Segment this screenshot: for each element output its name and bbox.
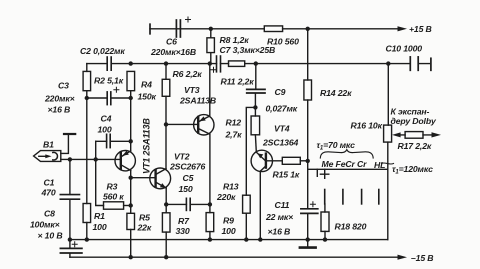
- svg-text:R5: R5: [139, 213, 150, 223]
- svg-text:2SC1364: 2SC1364: [262, 138, 298, 148]
- svg-text:22к: 22к: [137, 223, 152, 233]
- svg-text:R4: R4: [141, 80, 152, 90]
- VT1 emitter with arrow (PNP, up): [122, 151, 131, 157]
- wire R5 chain to bottom bus: [130, 206, 132, 258]
- wire long left line down to R1: [86, 98, 88, 204]
- node R3/R5: [129, 203, 133, 207]
- wire R15 to node: [300, 160, 307, 162]
- svg-text:В1: В1: [43, 140, 54, 150]
- HL tau callout stroke: [382, 163, 394, 164]
- wire signal ground rail: [70, 239, 388, 241]
- ground symbol: [307, 240, 309, 247]
- svg-text:22 мк×: 22 мк×: [265, 212, 293, 222]
- capacitor C5: [186, 198, 190, 210]
- svg-text:150: 150: [179, 184, 193, 194]
- svg-text:150к: 150к: [138, 92, 157, 102]
- svg-text:R10 560: R10 560: [267, 37, 299, 47]
- capacitor C1: [60, 195, 79, 200]
- wire R2 bottom to C3 node: [86, 91, 88, 98]
- svg-text:220мк×: 220мк×: [44, 94, 75, 104]
- node C11 rail: [306, 237, 310, 241]
- VT3 base bar: [197, 117, 199, 133]
- node at R8 top: [209, 27, 213, 31]
- B1 arrow inside: [39, 155, 47, 157]
- svg-text:2,7к: 2,7к: [225, 130, 243, 140]
- svg-text:R17 2,2к: R17 2,2к: [398, 141, 432, 151]
- svg-text:R13: R13: [223, 182, 239, 192]
- VT3 collector: [199, 129, 210, 134]
- capacitor C9: [247, 89, 265, 93]
- svg-text:+15 В: +15 В: [409, 24, 432, 34]
- VT2 emitter with arrow (NPN, down): [156, 182, 166, 188]
- terminal C10 right open end: [430, 58, 432, 70]
- capacitor C2: [107, 57, 111, 70]
- svg-text:470: 470: [41, 188, 56, 198]
- resistor R8: [207, 29, 215, 64]
- node C3 right / R4 bottom: [129, 96, 133, 100]
- C3 plus sign: [114, 87, 119, 92]
- capacitor C3 (electrolytic): [107, 92, 111, 105]
- svg-text:100: 100: [98, 125, 112, 135]
- T-bar: [64, 133, 75, 135]
- svg-text:560 к: 560 к: [103, 192, 124, 202]
- svg-text:Me FeCr Cr: Me FeCr Cr: [322, 159, 368, 169]
- wire R1 to rail: [86, 223, 88, 240]
- wire R2 branch from corner down: [86, 64, 88, 72]
- terminal top-left open end: [149, 24, 151, 34]
- node R6 top: [164, 61, 168, 65]
- VT2 base bar: [154, 170, 156, 186]
- svg-text:C9: C9: [275, 87, 286, 97]
- switch contact Cr: [361, 190, 363, 204]
- svg-text:R2 5,1к: R2 5,1к: [94, 76, 124, 86]
- svg-text:C6: C6: [166, 37, 177, 47]
- svg-text:× 10 В: × 10 В: [38, 231, 63, 241]
- node VT3 base tap: [164, 122, 168, 126]
- transistor VT2 circle: [150, 168, 171, 189]
- wire C8 stem: [69, 240, 71, 258]
- transistor VT1 circle: [115, 151, 135, 171]
- svg-text:2SC2676: 2SC2676: [169, 162, 205, 172]
- wire R12 to VT4 base: [254, 135, 257, 152]
- transistor VT3 circle: [194, 115, 214, 135]
- switch wiper stub with crossbar: [320, 169, 328, 178]
- svg-text:R9: R9: [223, 216, 234, 226]
- capacitor C7: [217, 56, 221, 72]
- C8 plus sign: [72, 242, 77, 247]
- VT4 emitter diagonal with arrow: [256, 152, 265, 160]
- wire R16 bottom / box right edge: [387, 142, 389, 240]
- resistor R17: [405, 132, 423, 139]
- svg-text:220мк×16В: 220мк×16В: [150, 47, 196, 57]
- svg-text:100мк×: 100мк×: [30, 220, 60, 230]
- node R2/C3 left: [85, 96, 89, 100]
- svg-text:VT2: VT2: [174, 152, 190, 162]
- node R10 right / +15V branch: [306, 27, 310, 31]
- B1 top terminal stem to T-bar: [61, 135, 69, 153]
- resistor R4: [127, 71, 135, 90]
- resistor R12: [251, 116, 260, 135]
- svg-text:деру Dolby: деру Dolby: [391, 116, 437, 126]
- wire C4 row: [96, 140, 131, 142]
- B1 gap hook: [53, 152, 58, 160]
- VT4 base bar: [265, 154, 267, 168]
- VT1 collector: [121, 165, 131, 171]
- wire R6 line: node to R6 to VT2 collector: [165, 64, 167, 169]
- wire contact Me to R18: [324, 204, 326, 212]
- svg-text:330: 330: [176, 226, 190, 236]
- node R1 rail: [85, 237, 89, 241]
- svg-text:R16 10к: R16 10к: [351, 121, 383, 131]
- +15V arrowhead: [398, 26, 408, 31]
- switch contact Me: [324, 190, 326, 204]
- node C9 top: [254, 61, 258, 65]
- wire R16 line from C10 node down: [387, 64, 389, 126]
- svg-text:100: 100: [93, 222, 107, 232]
- wire main mid bus y=63.6: [87, 63, 430, 65]
- wire R12 top lead: [254, 107, 256, 116]
- svg-text:τ1=120мкс: τ1=120мкс: [392, 164, 433, 176]
- svg-text:VT4: VT4: [274, 124, 290, 134]
- wire VT3 emitter up to node: [209, 64, 211, 117]
- resistor R15: [282, 157, 300, 164]
- VT4 lead to R15: [267, 160, 283, 162]
- wire top supply run from terminal to R10: [150, 28, 399, 30]
- C6 plus sign: [186, 17, 191, 22]
- svg-text:С11: С11: [275, 200, 290, 210]
- svg-text:С3: С3: [58, 81, 69, 91]
- svg-text:R1: R1: [94, 211, 105, 221]
- wire input run B1 to VT1 base: [61, 158, 121, 160]
- resistor R18: [321, 212, 329, 231]
- node C5/R9: [208, 202, 212, 206]
- svg-text:R14 22к: R14 22к: [320, 88, 352, 98]
- resistor R10: [264, 26, 282, 32]
- svg-text:–15 В: –15 В: [411, 253, 433, 263]
- capacitor C6: [176, 20, 180, 37]
- svg-text:R12: R12: [226, 118, 242, 128]
- wire C9 stem: [254, 64, 256, 108]
- wire R7 chain to bottom bus: [165, 204, 167, 257]
- wire C1 stem lower: [69, 199, 71, 239]
- svg-text:HL: HL: [374, 160, 385, 170]
- svg-text:×16 В: ×16 В: [48, 105, 71, 115]
- svg-text:100: 100: [222, 226, 236, 236]
- node R15/R14/C11 junction: [306, 159, 310, 163]
- resistor R14: [304, 80, 312, 100]
- C11 plus sign: [310, 202, 315, 207]
- node R13 rail: [244, 237, 248, 241]
- wire VT3 base: [166, 123, 198, 125]
- wire R4 bottom to C4 row to VT1 emitter: [130, 91, 132, 151]
- node VT4 lower lead rail: [258, 237, 262, 241]
- svg-text:C2 0,022мк: C2 0,022мк: [80, 46, 125, 56]
- resistor R3: [104, 202, 124, 209]
- node R3/C4 branch tap: [94, 157, 98, 161]
- capacitor C11: [301, 209, 318, 214]
- svg-text:К экспан-: К экспан-: [391, 107, 430, 117]
- node R16/C10: [386, 61, 390, 65]
- wire C1 stem upper: [69, 159, 71, 194]
- -15V arrowhead: [398, 255, 408, 260]
- node R5 bottom bus: [129, 255, 133, 259]
- wire R17 branch: [399, 134, 433, 136]
- node R9 rail: [208, 237, 212, 241]
- wire R3 branch down from input: [96, 159, 104, 205]
- resistor R13: [243, 195, 251, 213]
- node C2/R4 top: [129, 61, 133, 65]
- node C1 tap: [68, 157, 72, 161]
- wire VT2 base: [131, 177, 156, 179]
- VT2 collector (up): [156, 169, 166, 175]
- wire R13 branch: [246, 107, 255, 239]
- switch contact FeCr: [342, 190, 344, 204]
- svg-text:×16 В: ×16 В: [268, 227, 291, 237]
- capacitor C8: [60, 248, 82, 253]
- C7 plus sign: [211, 67, 216, 72]
- wire R9 chain: [209, 204, 211, 239]
- wire R14 to R15 node: [307, 100, 309, 161]
- node C9/R12/R13: [253, 105, 257, 109]
- svg-text:C4: C4: [101, 114, 112, 124]
- transistor VT4 circle: [251, 150, 272, 171]
- VT4 collector down: [260, 166, 265, 239]
- wire R18 to rail: [324, 231, 326, 239]
- svg-text:0,027мк: 0,027мк: [266, 104, 298, 114]
- capacitor C10: [410, 57, 418, 70]
- node C4 right: [129, 139, 133, 143]
- svg-text:R11 2,2к: R11 2,2к: [221, 77, 255, 87]
- svg-text:C10 1000: C10 1000: [386, 44, 423, 54]
- svg-text:VT3: VT3: [184, 85, 200, 95]
- capacitor C4: [107, 134, 111, 147]
- svg-text:R6 2,2к: R6 2,2к: [173, 69, 203, 79]
- svg-text:С8: С8: [44, 209, 55, 219]
- resistor R1: [83, 204, 91, 223]
- svg-text:VT1 2SA113В: VT1 2SA113В: [142, 118, 152, 174]
- wire node down to C11: [307, 161, 309, 209]
- wire bottom -15V bus: [70, 256, 399, 258]
- svg-text:2SA113В: 2SA113В: [179, 96, 216, 106]
- node VT2 base tap: [129, 176, 133, 180]
- node R8/VT3 emitter: [208, 61, 212, 65]
- svg-text:R8 1,2к: R8 1,2к: [220, 35, 250, 45]
- wire C4 left corner down to input node: [95, 141, 97, 159]
- head B1 body: [34, 151, 61, 162]
- resistor R9: [206, 213, 214, 232]
- brace for tau 70us: [320, 150, 373, 158]
- svg-text:R15 1к: R15 1к: [273, 170, 300, 180]
- switch box left edge stub: [316, 169, 318, 176]
- wire VT1 collector down / VT2 base node: [130, 170, 132, 205]
- node R7 bottom bus: [164, 255, 168, 259]
- wire C11 to rail: [307, 213, 309, 239]
- svg-text:220к: 220к: [216, 192, 236, 202]
- node C1/C8 rail: [68, 237, 72, 241]
- resistor R5: [127, 213, 135, 229]
- wire VT3 collector down to C5 node: [209, 134, 211, 205]
- R17 output arrowhead: [432, 132, 442, 137]
- wire +15V line down through R14: [307, 29, 309, 80]
- svg-text:C5: C5: [183, 173, 194, 183]
- svg-text:R3: R3: [107, 182, 118, 192]
- resistor R6: [162, 79, 170, 96]
- switch contact HL: [378, 190, 380, 204]
- wire C3 row: [87, 97, 131, 99]
- svg-text:R18 820: R18 820: [335, 222, 367, 232]
- svg-text:С1: С1: [44, 178, 55, 188]
- resistor R16: [384, 125, 392, 142]
- resistor R7: [162, 213, 170, 232]
- VT1 base bar: [120, 153, 122, 169]
- R17 branch left arrowhead: [392, 132, 401, 137]
- wire C5 row: [166, 203, 210, 205]
- wire VT2 emitter down to C5 corner: [165, 188, 167, 204]
- node R18 rail: [323, 237, 327, 241]
- resistor R11: [229, 61, 245, 67]
- svg-text:τ1=70 мкс: τ1=70 мкс: [317, 140, 356, 152]
- resistor R2: [83, 71, 91, 90]
- svg-text:R7: R7: [178, 216, 190, 226]
- node VT2 emitter / C5 / R7: [164, 202, 168, 206]
- wire switch box top edge: [308, 168, 388, 170]
- wire R3 right to collector line: [124, 205, 131, 207]
- VT3 emitter with arrow (PNP, up): [199, 116, 209, 121]
